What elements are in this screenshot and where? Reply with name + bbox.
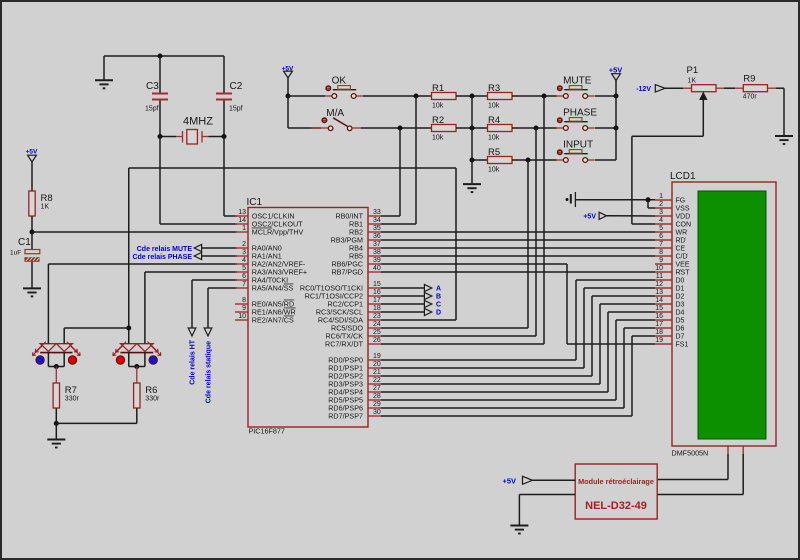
svg-text:R6: R6 (145, 385, 157, 396)
svg-text:C1: C1 (18, 237, 31, 248)
svg-text:D: D (436, 310, 441, 317)
svg-text:17: 17 (373, 297, 381, 304)
svg-text:PIC16F877: PIC16F877 (249, 427, 285, 436)
svg-text:10: 10 (238, 313, 246, 320)
svg-text:9: 9 (242, 305, 246, 312)
svg-text:OK: OK (332, 76, 347, 87)
svg-text:12: 12 (655, 281, 663, 288)
svg-text:22: 22 (373, 377, 381, 384)
svg-text:21: 21 (373, 369, 381, 376)
svg-text:D3: D3 (676, 302, 685, 309)
svg-text:C2: C2 (230, 81, 243, 92)
svg-text:RB7/PGD: RB7/PGD (331, 268, 363, 277)
svg-text:23: 23 (373, 313, 381, 320)
svg-text:+5V: +5V (583, 213, 596, 220)
svg-text:14: 14 (655, 297, 663, 304)
svg-text:D5: D5 (676, 318, 685, 325)
svg-text:4MHZ: 4MHZ (183, 116, 213, 128)
svg-text:NEL-D32-49: NEL-D32-49 (585, 500, 647, 512)
svg-text:D0: D0 (676, 278, 685, 285)
svg-text:R7: R7 (65, 385, 77, 396)
svg-text:1K: 1K (41, 204, 50, 211)
svg-text:7: 7 (242, 281, 246, 288)
svg-text:25: 25 (373, 329, 381, 336)
svg-text:18: 18 (373, 305, 381, 312)
svg-text:FS1: FS1 (676, 342, 689, 349)
svg-text:38: 38 (373, 249, 381, 256)
svg-text:MCLR/Vpp/THV: MCLR/Vpp/THV (252, 228, 304, 237)
svg-text:17: 17 (655, 321, 663, 328)
svg-text:RE2/AN7/CS: RE2/AN7/CS (252, 316, 294, 325)
svg-text:11: 11 (656, 273, 663, 280)
svg-text:IC1: IC1 (247, 197, 263, 208)
svg-text:6: 6 (242, 273, 246, 280)
svg-text:30: 30 (373, 409, 381, 416)
svg-text:-12V: -12V (636, 86, 651, 93)
svg-text:PHASE: PHASE (563, 108, 597, 119)
svg-text:C: C (436, 302, 441, 309)
svg-text:3: 3 (242, 249, 246, 256)
svg-text:RC7/RX/DT: RC7/RX/DT (325, 340, 364, 349)
svg-text:37: 37 (373, 241, 381, 248)
svg-text:RA5/AN4/SS: RA5/AN4/SS (252, 284, 294, 293)
svg-text:10k: 10k (488, 167, 500, 174)
svg-text:Cde relais MUTE: Cde relais MUTE (137, 246, 193, 253)
svg-text:4: 4 (242, 257, 246, 264)
svg-text:FG: FG (676, 198, 686, 205)
svg-text:R8: R8 (41, 193, 53, 204)
svg-text:34: 34 (373, 217, 381, 224)
svg-text:6: 6 (659, 233, 663, 240)
svg-text:P1: P1 (687, 65, 699, 76)
svg-text:8: 8 (659, 249, 663, 256)
svg-text:28: 28 (373, 393, 381, 400)
svg-text:DMF5005N: DMF5005N (672, 449, 709, 458)
svg-text:2: 2 (242, 241, 246, 248)
svg-text:Cde relais PHASE: Cde relais PHASE (132, 254, 192, 261)
svg-text:27: 27 (373, 385, 381, 392)
svg-text:CON: CON (676, 222, 692, 229)
svg-text:D4: D4 (676, 310, 685, 317)
svg-text:26: 26 (373, 337, 381, 344)
svg-text:7: 7 (659, 241, 663, 248)
svg-text:15: 15 (373, 281, 381, 288)
svg-text:470r: 470r (743, 93, 758, 100)
svg-text:Cde relais statique: Cde relais statique (206, 341, 213, 403)
svg-text:40: 40 (373, 265, 381, 272)
svg-text:19: 19 (373, 353, 381, 360)
svg-text:19: 19 (655, 337, 663, 344)
svg-text:C3: C3 (146, 81, 159, 92)
svg-text:5: 5 (242, 265, 246, 272)
svg-text:24: 24 (373, 321, 381, 328)
svg-text:10k: 10k (432, 135, 444, 142)
svg-text:D6: D6 (676, 326, 685, 333)
svg-text:1: 1 (659, 193, 663, 200)
svg-text:RD: RD (676, 238, 686, 245)
svg-text:WR: WR (676, 230, 688, 237)
svg-text:A: A (436, 286, 441, 293)
svg-text:VSS: VSS (676, 206, 690, 213)
svg-text:VDD: VDD (676, 214, 691, 221)
svg-text:R3: R3 (488, 83, 500, 94)
svg-text:1K: 1K (688, 78, 697, 85)
svg-text:14: 14 (238, 217, 246, 224)
svg-text:RST: RST (676, 270, 691, 277)
svg-text:INPUT: INPUT (563, 140, 593, 151)
svg-text:1uF: 1uF (10, 250, 21, 257)
svg-text:+5V: +5V (26, 149, 38, 156)
svg-text:Module rétroéclairage: Module rétroéclairage (578, 477, 654, 486)
svg-text:R1: R1 (432, 83, 444, 94)
svg-text:9: 9 (659, 257, 663, 264)
svg-text:C/D: C/D (676, 254, 688, 261)
svg-text:Cde relais HT: Cde relais HT (190, 339, 197, 384)
svg-text:1: 1 (242, 225, 246, 232)
svg-text:29: 29 (373, 401, 381, 408)
svg-text:330r: 330r (65, 396, 80, 403)
svg-text:15pf: 15pf (145, 106, 159, 113)
svg-text:36: 36 (373, 233, 381, 240)
svg-text:10: 10 (655, 265, 663, 272)
svg-text:10k: 10k (488, 135, 500, 142)
svg-text:2: 2 (659, 201, 663, 208)
svg-text:18: 18 (655, 329, 663, 336)
svg-text:LCD1: LCD1 (670, 171, 696, 182)
svg-text:13: 13 (238, 209, 246, 216)
svg-text:4: 4 (659, 217, 663, 224)
svg-text:R4: R4 (488, 115, 500, 126)
svg-text:CE: CE (676, 246, 686, 253)
svg-text:8: 8 (242, 297, 246, 304)
svg-text:35: 35 (373, 225, 381, 232)
svg-text:VEE: VEE (676, 262, 690, 269)
svg-text:M/A: M/A (326, 108, 344, 119)
svg-text:15: 15 (655, 305, 663, 312)
svg-text:39: 39 (373, 257, 381, 264)
svg-text:10k: 10k (488, 103, 500, 110)
svg-text:15pf: 15pf (229, 106, 243, 113)
svg-text:13: 13 (655, 289, 663, 296)
svg-text:3: 3 (659, 209, 663, 216)
svg-text:+5V: +5V (502, 477, 516, 486)
svg-text:D2: D2 (676, 294, 685, 301)
svg-text:10k: 10k (432, 103, 444, 110)
svg-text:R9: R9 (743, 73, 755, 84)
svg-text:16: 16 (373, 289, 381, 296)
svg-text:D7: D7 (676, 334, 685, 341)
svg-text:R2: R2 (432, 115, 444, 126)
svg-text:330r: 330r (145, 396, 160, 403)
svg-text:R5: R5 (488, 147, 500, 158)
svg-text:16: 16 (655, 313, 663, 320)
svg-text:MUTE: MUTE (563, 76, 592, 87)
svg-text:RD7/PSP7: RD7/PSP7 (328, 412, 363, 421)
svg-text:D1: D1 (676, 286, 685, 293)
svg-text:B: B (436, 294, 441, 301)
svg-text:5: 5 (659, 225, 663, 232)
svg-text:33: 33 (373, 209, 381, 216)
svg-text:20: 20 (373, 361, 381, 368)
